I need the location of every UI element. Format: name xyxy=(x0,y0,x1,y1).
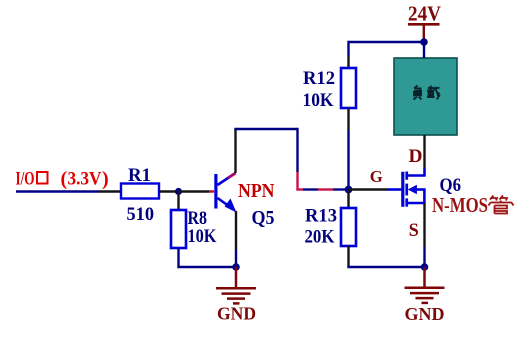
svg-text:N-MOS: N-MOS xyxy=(432,193,488,217)
svg-text:Q5: Q5 xyxy=(252,207,275,229)
wire: Q6 source drop xyxy=(423,203,425,267)
wire: 24V node to load xyxy=(423,42,425,58)
junction: gate node xyxy=(345,186,353,194)
wire: R13 bottom to source node xyxy=(347,246,424,267)
resistor R13 xyxy=(341,208,356,246)
resistor R1 xyxy=(121,184,159,199)
junction: emitter/GND node xyxy=(232,263,240,271)
junction: source/GND node xyxy=(421,263,429,271)
wire: gate node to Q6 gate xyxy=(349,188,402,190)
svg-text:(: ( xyxy=(61,168,68,190)
wire: load to Q6 drain xyxy=(423,135,425,176)
wire: Q5 collector riser xyxy=(234,129,236,173)
svg-text:I/O: I/O xyxy=(16,169,35,190)
wire: R1 to base node xyxy=(159,190,179,192)
svg-text:20K: 20K xyxy=(305,227,335,248)
svg-text:24V: 24V xyxy=(408,2,441,26)
wire: R12 to gate node xyxy=(347,108,349,130)
ground GND (left) xyxy=(216,267,256,303)
svg-text:10K: 10K xyxy=(303,90,334,111)
svg-text:R13: R13 xyxy=(305,206,337,227)
load block (fu-zai) xyxy=(394,58,457,135)
svg-text:D: D xyxy=(409,146,423,167)
wire: collector drop to gate run xyxy=(296,128,298,191)
wire: to gate node xyxy=(298,188,349,190)
svg-text:): ) xyxy=(102,168,109,190)
transistor Q5 (NPN) xyxy=(214,173,236,213)
junction: base node xyxy=(175,188,182,195)
ground GND (right) xyxy=(405,267,445,303)
svg-text:GND: GND xyxy=(217,304,256,324)
power 24V xyxy=(408,2,441,42)
net label I/O port (3.3V) xyxy=(16,168,109,190)
wire: collector top horizontal xyxy=(234,128,297,130)
resistor R8 xyxy=(171,210,186,248)
svg-text:R12: R12 xyxy=(303,68,335,89)
svg-text:510: 510 xyxy=(127,204,155,225)
resistor R12 xyxy=(341,68,356,108)
wire: base node down to R8 xyxy=(177,192,179,211)
transistor Q6 (N-MOS) xyxy=(401,172,425,207)
wire: R8 bottom to emitter node xyxy=(177,248,236,267)
junction: 24V rail node xyxy=(420,38,428,46)
wire: Q5 emitter drop xyxy=(235,211,237,267)
wire: 24V rail to R12 xyxy=(349,41,425,68)
svg-text:10K: 10K xyxy=(188,226,217,247)
svg-text:S: S xyxy=(409,220,419,241)
svg-text:G: G xyxy=(370,167,383,186)
wire: I/O input to R1 xyxy=(16,190,121,192)
svg-text:NPN: NPN xyxy=(238,180,275,202)
svg-text:3.3V: 3.3V xyxy=(68,169,102,190)
svg-text:R1: R1 xyxy=(128,165,151,186)
wire: gate node down to R13 xyxy=(347,190,349,209)
svg-text:GND: GND xyxy=(405,304,445,324)
wire: base node to Q5 base xyxy=(179,190,215,192)
label N-MOS (guan) xyxy=(432,193,514,217)
